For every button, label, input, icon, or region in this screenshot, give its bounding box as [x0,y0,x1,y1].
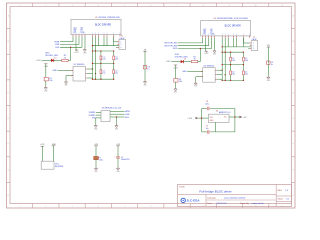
svg-text:PWM2: PWM2 [89,115,96,117]
svg-text:LED-RED_0805: LED-RED_0805 [175,56,188,58]
svg-text:4: 4 [98,206,99,208]
svg-text:LIN1: LIN1 [125,114,130,116]
svg-text:6: 6 [150,206,151,208]
svg-text:AMS1117-5.0: AMS1117-5.0 [219,111,230,114]
svg-text:D1: D1 [54,57,56,59]
svg-text:GND: GND [194,86,197,88]
svg-text:5: 5 [124,5,125,7]
svg-text:PWM1: PWM1 [89,112,96,114]
svg-text:craftsman-lab: craftsman-lab [251,202,264,205]
svg-text:D1: D1 [184,59,186,61]
svg-text:Drawn By:: Drawn By: [240,203,250,205]
svg-text:104: 104 [232,60,235,62]
svg-text:U8: U8 [216,110,218,112]
svg-text:100u: 100u [205,104,209,106]
svg-text:Company:: Company: [207,198,217,200]
svg-text:MOTOR_IN1: MOTOR_IN1 [164,43,178,45]
svg-text:GND: GND [213,54,216,56]
svg-text:1: 1 [19,206,20,208]
svg-text:7: 7 [176,5,177,7]
svg-text:1u: 1u [271,64,273,66]
svg-text:GND: GND [182,71,187,73]
svg-text:CA-3P: CA-3P [252,38,258,41]
svg-text:IRS2003STRPBF_SOIC-8-150MIL: IRS2003STRPBF_SOIC-8-150MIL [217,18,249,20]
svg-text:3: 3 [72,206,73,208]
svg-text:Full-bridge BLDC driver: Full-bridge BLDC driver [199,189,231,193]
svg-text:10u: 10u [245,74,248,76]
svg-text:11: 11 [281,5,283,7]
svg-text:REV:: REV: [278,190,283,192]
svg-text:1: 1 [19,5,20,7]
svg-text:CA-3P: CA-3P [120,37,126,40]
svg-text:100uF25V: 100uF25V [121,159,130,161]
svg-text:JLC·EDA: JLC·EDA [187,199,201,203]
svg-text:BLDC DRIVER: BLDC DRIVER [225,25,241,28]
svg-text:LED-RED_0805: LED-RED_0805 [45,55,58,57]
svg-text:BLDC DRIVER: BLDC DRIVER [95,23,111,26]
svg-text:GND: GND [116,171,119,173]
svg-text:10u: 10u [102,72,105,74]
svg-text:2021-01-30: 2021-01-30 [216,203,227,205]
svg-text:U2 SS8050: U2 SS8050 [74,64,85,66]
svg-text:3: 3 [72,5,73,7]
svg-text:EN: EN [92,118,95,120]
svg-text:HIN1: HIN1 [125,111,131,113]
svg-text:U2 SS8050: U2 SS8050 [203,65,214,67]
svg-text:HIN1: HIN1 [55,41,61,43]
svg-text:BUZZER: BUZZER [55,166,64,168]
svg-text:10u: 10u [115,72,118,74]
svg-text:10k: 10k [49,80,52,82]
svg-text:2: 2 [45,206,46,208]
svg-text:LIN1: LIN1 [55,44,60,46]
svg-text:104: 104 [115,59,118,61]
svg-text:2: 2 [45,5,46,7]
svg-text:6: 6 [150,5,151,7]
svg-text:GND: GND [83,52,86,54]
svg-text:+12V: +12V [40,144,45,146]
svg-text:U6 HDR-M-2.54_1x4: U6 HDR-M-2.54_1x4 [102,107,122,109]
svg-text:+12V: +12V [187,118,192,120]
svg-text:+12V: +12V [166,61,171,63]
svg-text:104: 104 [102,59,105,61]
svg-text:TITLE:: TITLE: [179,187,185,189]
svg-text:Sheet:: Sheet: [278,197,284,200]
svg-text:104: 104 [245,60,248,62]
svg-text:IR2110S_PWRDIP-14N: IR2110S_PWRDIP-14N [99,17,121,19]
svg-text:Date:: Date: [208,202,213,205]
svg-text:GND: GND [64,85,67,87]
svg-text:+12V: +12V [36,60,41,62]
svg-text:GND: GND [115,128,118,130]
svg-text:GND: GND [143,84,146,86]
svg-text:MOTOR_IN2: MOTOR_IN2 [164,45,178,47]
svg-text:10u: 10u [232,74,235,76]
svg-text:GND: GND [53,70,58,72]
svg-text:GND: GND [94,128,97,130]
svg-text:4: 4 [98,5,99,7]
svg-text:GND: GND [174,92,177,94]
svg-text:10: 10 [255,5,257,7]
svg-text:GND: GND [267,80,270,82]
svg-text:GND: GND [94,171,97,173]
svg-text:GND: GND [44,90,47,92]
svg-text:www.oshwhub.com/bldc: www.oshwhub.com/bldc [224,198,245,200]
svg-text:1u: 1u [147,69,149,71]
svg-text:10k: 10k [179,81,182,83]
svg-text:8: 8 [203,5,204,7]
svg-text:GND: GND [52,144,57,146]
svg-text:9: 9 [229,5,230,7]
svg-text:10u: 10u [206,128,209,130]
svg-text:5: 5 [124,206,125,208]
